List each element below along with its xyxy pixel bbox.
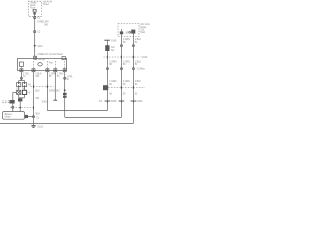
relay coil (dark box) — [131, 30, 135, 37]
wire: battery feed to A/C control — [34, 15, 36, 57]
splice S360 — [54, 89, 66, 92]
label wire DK GRN — [49, 73, 56, 79]
svg-text:C100: C100 — [142, 56, 148, 59]
connector rings under relay — [120, 45, 134, 47]
svg-text:A/C Control Head: A/C Control Head — [45, 53, 64, 56]
wire from resistors to connector — [13, 92, 17, 100]
connector ring at motor/ground junction — [32, 116, 34, 118]
ground G103 — [31, 124, 43, 129]
wire connector to motor — [12, 104, 14, 112]
splice row — [99, 100, 143, 103]
svg-text:S140: S140 — [111, 39, 117, 42]
inline connector C100 (dashed row) — [104, 56, 148, 59]
label wire TAN — [57, 73, 64, 79]
splice S110 — [34, 45, 43, 48]
svg-text:S360: S360 — [54, 90, 60, 93]
wire: pressure switch run — [106, 40, 108, 110]
pin box top (B6) — [34, 56, 37, 59]
svg-text:S110: S110 — [37, 45, 43, 48]
inline connector (dark) — [2, 100, 15, 104]
resistor box B — [22, 83, 31, 87]
connector ring on x12.8 — [12, 106, 14, 108]
connector ring on x64.7 — [64, 77, 66, 79]
relay switch contact — [120, 29, 123, 36]
inline connector C200 (dashed row with body) — [103, 85, 145, 90]
wire: control head to ground G103 — [33, 72, 35, 124]
label: Hot At All Times — [43, 1, 53, 7]
pin box top right (unused) — [62, 57, 65, 60]
svg-text:GRN: GRN — [49, 90, 55, 93]
svg-text:Fuse: Fuse — [30, 6, 36, 9]
svg-text:C2 Blue: C2 Blue — [137, 68, 146, 71]
labels under dashed line — [35, 90, 54, 93]
svg-text:BLK: BLK — [35, 90, 40, 93]
svg-text:G200: G200 — [137, 100, 143, 103]
internal dashed switch lines — [21, 61, 64, 69]
svg-text:HI: HI — [28, 91, 31, 94]
svg-text:G103: G103 — [37, 126, 43, 129]
label wire BLK — [35, 73, 42, 79]
svg-text:2 RED: 2 RED — [37, 53, 44, 56]
wire run 1 return — [47, 110, 107, 112]
relay coil terminal ring — [129, 31, 131, 33]
svg-text:BLK: BLK — [36, 112, 41, 115]
svg-text:Fan: Fan — [49, 62, 54, 65]
A/C relay box (dashed) — [118, 24, 139, 37]
wire: control head to relay run — [64, 72, 66, 117]
pressure switch branch top bar — [104, 39, 117, 42]
labels under relay — [123, 38, 142, 44]
resistor box D — [22, 90, 30, 94]
labels under A/B — [16, 88, 26, 91]
label wire 72 — [23, 73, 30, 79]
label wire PPL — [66, 75, 73, 81]
switch inside control head — [20, 62, 24, 66]
fuse oval inside control head — [38, 63, 43, 66]
wire junction to motor — [19, 102, 21, 112]
A/C control head box — [18, 58, 67, 70]
svg-text:B6 Ign: B6 Ign — [38, 58, 45, 61]
connector stack on x64.7 — [63, 93, 67, 98]
underhood fuse block (dashed box) — [28, 1, 41, 16]
connector ring row C2 — [106, 68, 145, 71]
labels right of relay box — [140, 23, 151, 34]
labels under C200 — [109, 92, 138, 95]
svg-text:Mod: Mod — [140, 31, 145, 34]
resistor box A — [17, 83, 21, 87]
blower motor — [3, 112, 25, 120]
blower resistors feed tree — [19, 81, 25, 83]
svg-text:S205: S205 — [111, 100, 117, 103]
pin boxes bottom — [20, 69, 66, 72]
resistor outputs join — [19, 95, 25, 98]
motor ground lead — [25, 116, 34, 118]
motor connector (dark) — [25, 115, 28, 118]
long ground bus wire — [0, 123, 133, 125]
svg-text:Times: Times — [43, 3, 50, 6]
wire: relay to run 1 — [120, 37, 122, 118]
fuse F1 — [33, 9, 37, 14]
end bar on x55 stub — [42, 100, 58, 103]
junction block (dark) — [18, 98, 22, 101]
wire: control head stub — [54, 72, 56, 101]
connector C1 ring — [34, 17, 41, 20]
connector ring on x21 — [20, 77, 22, 79]
labels under C100 — [109, 60, 141, 66]
wire: control head to blower resistors — [20, 72, 22, 81]
svg-text:S361: S361 — [42, 101, 48, 104]
labels mid run — [109, 80, 141, 86]
wire: relay to ground bus — [132, 37, 134, 124]
dashed connector line across x33.5/x47 — [31, 85, 54, 88]
svg-text:Sw: Sw — [111, 49, 115, 52]
wire label 340 RED — [37, 21, 49, 27]
pressure switch (dark box) — [105, 45, 115, 52]
resistor box C with X — [17, 90, 21, 94]
dashed connector line bottom-left — [10, 106, 34, 108]
svg-text:Motor: Motor — [5, 116, 11, 119]
wire run 2 return — [65, 117, 122, 119]
connector ring C2 — [34, 31, 41, 34]
links A-C and B-D — [19, 87, 25, 91]
wire: control head pin to C2 then right run — [46, 72, 48, 111]
